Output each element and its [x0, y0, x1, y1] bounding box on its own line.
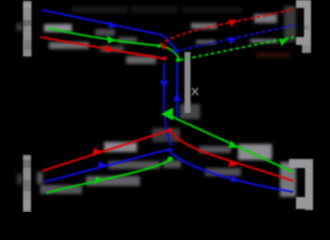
- middle left vertical connector: [164, 111, 171, 146]
- label smudge mid top-left blue: [95, 29, 115, 36]
- label smudge mid bottom-left red: [104, 142, 137, 152]
- faint dark red smudge right of center: [256, 52, 290, 58]
- big terminal arrow on bottom-right green: [161, 108, 173, 121]
- top-left matrix bar: [23, 1, 32, 57]
- junction dot blue bottom: [168, 148, 172, 152]
- junction dot green small top: [157, 44, 161, 48]
- smudge below bottom throat: [163, 160, 181, 168]
- middle right vertical blue line: [176, 63, 178, 118]
- label smudge below red start: [49, 42, 89, 49]
- top-left solid red line: [40, 37, 166, 59]
- middle left vertical blue line: [163, 63, 165, 111]
- arrow on top-left red: [105, 45, 114, 53]
- down arrow on left vertical: [160, 81, 168, 90]
- label smudge mid bottom-right red: [199, 146, 231, 153]
- arrow on bottom-left blue: [97, 162, 106, 170]
- label smudge mid bottom-left blue: [108, 161, 160, 169]
- label smudge mid bottom-right blue: [205, 168, 241, 176]
- label smudge near green start: [44, 24, 72, 32]
- junction dot red end of top-left red: [163, 57, 167, 61]
- faint title text row: [72, 6, 128, 13]
- bottom-right closing bracket: [289, 159, 312, 168]
- mid arrow on bottom-right green: [228, 141, 237, 149]
- label smudge under dashed red right: [254, 14, 277, 23]
- smudge below center bar: [180, 104, 200, 119]
- label smudge near bottom-left green start: [40, 185, 82, 194]
- arrow on dashed blue: [228, 37, 237, 45]
- arrow on bottom-left green: [94, 177, 103, 185]
- junction dot green bottom: [167, 156, 172, 161]
- up arrow on right vertical: [173, 92, 181, 101]
- label glyph left of bottom-left bar: [17, 174, 22, 184]
- label glyph left of top-left bar: [17, 23, 23, 31]
- tick right of bottom-left bracket: [37, 172, 43, 184]
- glyph near top-right bracket: [304, 25, 309, 30]
- arrow on top-left green: [107, 36, 116, 44]
- bottom-left matrix bar: [23, 155, 31, 212]
- bottom-left solid blue line: [44, 149, 170, 182]
- top-left solid blue line: [42, 10, 176, 50]
- label smudge above dashed green: [250, 39, 278, 43]
- glyph right of center bar: [192, 88, 198, 95]
- arrow on dashed red: [228, 20, 237, 27]
- smudge at bottom throat: [152, 128, 180, 142]
- junction dot blue top: [174, 49, 178, 53]
- label smudge on bottom-right green: [238, 144, 272, 160]
- mid arrow on bottom-right red: [228, 159, 237, 167]
- top-right closing bracket: [296, 0, 310, 8]
- junction dot red top: [162, 45, 166, 49]
- center vertical bar: [185, 52, 191, 113]
- junction dot red bottom: [168, 128, 172, 132]
- label smudge above dashed blue: [196, 40, 216, 44]
- top-right dashed green line: [180, 37, 294, 60]
- bottom-left solid green line: [46, 159, 173, 194]
- arrow on bottom-left red: [92, 148, 101, 157]
- bottom-right solid red line: [171, 132, 293, 181]
- top-left solid green line: [48, 28, 179, 59]
- label smudge mid top-left green: [118, 37, 137, 43]
- top-right dashed red line: [160, 9, 294, 45]
- label smudge at top-right line ends: [284, 6, 296, 42]
- label smudge below top red end: [126, 56, 156, 64]
- label smudge at bottom-right line ends: [280, 162, 296, 197]
- bottom-right long green line: [166, 114, 293, 172]
- label smudge above dashed red: [191, 23, 217, 29]
- junction dot green top: [176, 58, 180, 62]
- arrow on dashed green: [279, 39, 288, 46]
- arrow on top-left blue: [108, 21, 117, 29]
- bottom-right solid blue line: [170, 152, 293, 192]
- top-right dashed blue line: [176, 25, 295, 51]
- label smudge mid bottom-left green: [86, 176, 140, 186]
- bottom-left solid red line: [42, 130, 170, 171]
- mid arrow on bottom-right blue: [230, 175, 239, 182]
